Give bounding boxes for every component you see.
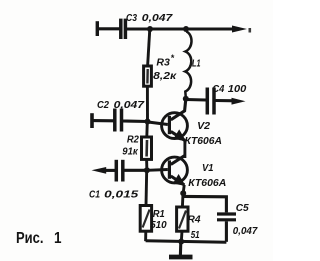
svg-text:КТ606А: КТ606А (185, 135, 223, 147)
svg-text:КТ606А: КТ606А (188, 177, 226, 189)
node J3 (L1 bottom / C4 / V2 collector) (183, 96, 189, 102)
capacitor C5 (217, 214, 236, 220)
svg-text:*: * (171, 53, 175, 63)
wire R4 to bottom rail (180, 231, 184, 241)
R2 interior streak (145, 140, 148, 157)
svg-text:510: 510 (150, 219, 167, 231)
wire J3 to C4 (186, 98, 206, 102)
wire C3 to output arrow (127, 27, 237, 30)
svg-text:V2: V2 (197, 120, 210, 132)
svg-text:0,047: 0,047 (142, 12, 174, 24)
wire R2 to node J5 (145, 159, 148, 170)
svg-text:R2: R2 (127, 134, 139, 146)
emitter V2 with arrow (171, 131, 185, 140)
svg-text:R3: R3 (156, 57, 170, 69)
wire J6 to C5 (183, 196, 226, 212)
R1 interior streak (143, 210, 150, 228)
capacitor C2 (115, 109, 122, 132)
svg-text:V1: V1 (202, 162, 214, 174)
wire terminal to C2 (93, 119, 114, 122)
svg-text:1: 1 (54, 230, 62, 247)
svg-text:100: 100 (228, 83, 247, 95)
svg-text:0,047: 0,047 (233, 225, 259, 237)
base wire V1 (147, 168, 167, 172)
wire R1 to bottom rail (144, 231, 147, 241)
wire C2 to node J4 (123, 119, 148, 123)
wire J4 down to R2 (145, 122, 148, 138)
svg-text:8,2к: 8,2к (153, 70, 177, 82)
svg-text:91к: 91к (122, 146, 138, 158)
inductor L1 (185, 32, 191, 97)
wire V1 emitter to node J6 (183, 185, 184, 193)
R3 interior streak (146, 69, 149, 84)
capacitor C1 (116, 160, 123, 182)
svg-text:Рис.: Рис. (16, 230, 44, 247)
input arrow C1 (pointing left) (92, 167, 107, 174)
collector V2 (171, 99, 186, 120)
wire J5 down to R1 (145, 170, 149, 205)
output arrow top-right (232, 26, 247, 33)
capacitor C4 (207, 88, 214, 115)
wire C1 to node J5 (124, 169, 147, 172)
node J2 (top of L1) (183, 26, 189, 32)
wire C5 to bottom rail (225, 221, 228, 241)
resistor R2 (142, 137, 152, 159)
capacitor C3 (121, 19, 126, 39)
wire C4 to output arrow (216, 99, 238, 102)
wire R3 to node J4 (146, 86, 149, 121)
emitter V1 with arrow (171, 176, 185, 185)
wire V2 emitter to V1 collector (183, 141, 186, 159)
transistor V1 (162, 155, 188, 186)
input terminal top-left (96, 21, 99, 36)
node J5 (base V1) (144, 167, 150, 173)
input terminal C2 (90, 113, 94, 128)
svg-text:C4: C4 (212, 83, 224, 95)
wire J1 down to R3 (148, 29, 150, 66)
svg-text:C5: C5 (236, 202, 249, 214)
svg-text:C2: C2 (97, 99, 109, 111)
node J6 (emitter V1 / R4 / C5) (180, 190, 186, 196)
wire J6 down to R4 (181, 193, 185, 207)
node J7 (ground tap) (178, 239, 184, 245)
svg-text:R4: R4 (188, 214, 201, 226)
svg-text:51: 51 (191, 229, 200, 241)
bottom rail (146, 241, 227, 242)
output arrow right (after C4) (232, 98, 246, 105)
ink speck right of arrow (249, 28, 252, 33)
svg-text:C3: C3 (126, 12, 137, 24)
svg-text:0,047: 0,047 (114, 99, 146, 111)
resistor R3 (144, 66, 152, 86)
R4 interior streak (179, 211, 186, 229)
svg-text:L1: L1 (192, 58, 201, 70)
collector V1 (171, 155, 185, 164)
base wire V2 (148, 122, 168, 125)
transistor V2 (162, 99, 188, 141)
node J1 (C3 / R3) (147, 26, 153, 32)
wire terminal to C3 (98, 27, 120, 30)
wire arrow to C1 (104, 169, 116, 172)
resistor R4 (177, 207, 188, 231)
resistor R1 (140, 206, 151, 232)
svg-text:0,015: 0,015 (104, 189, 138, 201)
ground (169, 242, 193, 257)
node J4 (base V2) (145, 119, 151, 125)
svg-text:C1: C1 (89, 189, 100, 201)
